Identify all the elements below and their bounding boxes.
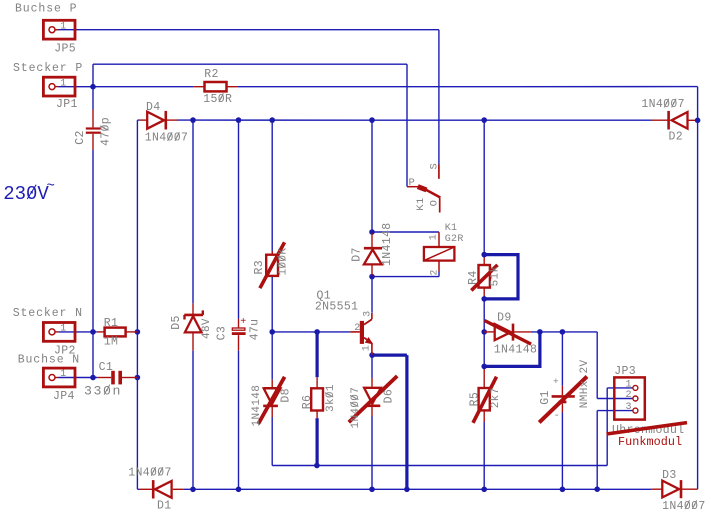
svg-text:Stecker P: Stecker P bbox=[13, 62, 83, 75]
svg-text:R5: R5 bbox=[469, 392, 482, 407]
svg-text:3: 3 bbox=[362, 311, 373, 317]
connector JP4 bbox=[43, 368, 75, 387]
svg-text:1: 1 bbox=[60, 21, 66, 32]
strikeout R4 bbox=[471, 265, 497, 291]
svg-text:R2: R2 bbox=[204, 68, 219, 81]
svg-text:1N4007: 1N4007 bbox=[145, 132, 189, 145]
svg-text:D1: D1 bbox=[157, 499, 172, 512]
node C1 right junction bbox=[135, 375, 141, 381]
battery G1 NiMH 2V crossed out bbox=[552, 395, 575, 398]
svg-text:1: 1 bbox=[428, 234, 439, 240]
wire relay coil top bbox=[372, 231, 439, 233]
wire JP3 pin1 bbox=[607, 387, 633, 389]
zener diode D8 1N4148 crossed out bbox=[264, 387, 281, 389]
label Funkmodul bbox=[618, 435, 682, 449]
strikeout D8 bbox=[258, 377, 284, 424]
svg-text:1N4007: 1N4007 bbox=[641, 98, 685, 111]
node R4 top junction bbox=[481, 252, 487, 258]
node D9 right junction bbox=[537, 329, 543, 335]
node D9 left junction bbox=[481, 329, 487, 335]
wire lower net to JP3 pin 1 bbox=[272, 465, 607, 467]
wire bottom rail bbox=[137, 488, 139, 490]
svg-text:1M: 1M bbox=[104, 336, 119, 349]
resistor R4 51k crossed out bbox=[479, 265, 490, 288]
wire D7/Q1 column from top rail bbox=[371, 120, 373, 233]
diode D3 1N4007 bbox=[662, 481, 679, 498]
node bottom rail junctions bbox=[190, 487, 196, 493]
svg-text:1: 1 bbox=[60, 369, 66, 380]
strikeout G1 bbox=[539, 377, 587, 423]
svg-text:Stecker N: Stecker N bbox=[13, 307, 83, 320]
svg-text:Buchse N: Buchse N bbox=[18, 354, 80, 367]
svg-text:2: 2 bbox=[354, 323, 360, 334]
strikeout R5 bbox=[473, 377, 497, 423]
wire D8 column to lower net bbox=[271, 332, 273, 380]
svg-text:2: 2 bbox=[429, 269, 440, 275]
node D7 top junction bbox=[369, 229, 375, 235]
node emitter jumper bottom bbox=[404, 487, 410, 493]
wire D6 to bottom rail bbox=[371, 416, 373, 489]
svg-text:Buchse P: Buchse P bbox=[15, 2, 77, 15]
capacitor C1 330n bbox=[111, 371, 115, 385]
wire D9 thick bypass bbox=[484, 332, 540, 367]
resistor R6 3k01 bbox=[311, 388, 323, 410]
diode D7 1N4148 bbox=[364, 247, 382, 250]
wire base rail R3 to Q1 bbox=[272, 331, 350, 333]
svg-text:3: 3 bbox=[626, 402, 632, 413]
svg-text:JP4: JP4 bbox=[53, 390, 75, 403]
wire JP1 riser to upper rail bbox=[92, 64, 94, 87]
node JP3 pin3 bottom junction bbox=[594, 486, 600, 492]
connector JP5 bbox=[43, 20, 75, 39]
svg-text:JP3: JP3 bbox=[614, 365, 636, 378]
wire JP5 to relay S column bbox=[58, 29, 439, 31]
svg-text:2N5551: 2N5551 bbox=[315, 300, 359, 313]
svg-text:230V: 230V bbox=[3, 183, 49, 205]
wire JP4 row to C1 bbox=[58, 377, 97, 379]
relay switch K1 P contact and arm bbox=[407, 186, 418, 188]
svg-text:150R: 150R bbox=[203, 93, 232, 106]
resistor R5 2k7 crossed out bbox=[479, 388, 490, 410]
node bypass left junction bbox=[481, 364, 487, 370]
wire R4 thick bypass bbox=[484, 255, 518, 299]
wire D7 collector link bbox=[371, 277, 373, 313]
svg-text:1N4148: 1N4148 bbox=[381, 222, 394, 266]
svg-text:C1: C1 bbox=[99, 361, 114, 374]
svg-text:G2R: G2R bbox=[445, 234, 464, 245]
svg-text:3k01: 3k01 bbox=[325, 384, 337, 412]
net label 230V~ bbox=[3, 183, 49, 205]
wire JP3 pin3 bbox=[597, 410, 633, 412]
diode D9 1N4148 crossed out bbox=[495, 324, 511, 340]
svg-text:-: - bbox=[554, 410, 561, 422]
node G1 bottom junction bbox=[560, 487, 566, 493]
svg-text:K1: K1 bbox=[445, 223, 458, 234]
svg-text:D3: D3 bbox=[662, 469, 677, 482]
wire D2 right stub to edge bbox=[688, 119, 698, 121]
label Uhrenmodul crossed out bbox=[612, 424, 685, 437]
wire Q1 emitter to D6 bbox=[371, 356, 373, 378]
wire N column JP2 to C1/JP4 bbox=[92, 332, 94, 378]
svg-text:D2: D2 bbox=[669, 131, 684, 144]
connector JP1 bbox=[43, 77, 75, 96]
wire D3 right stub to edge bbox=[682, 488, 698, 490]
svg-text:100K: 100K bbox=[278, 248, 290, 276]
svg-text:R6: R6 bbox=[301, 395, 314, 410]
svg-text:D8: D8 bbox=[279, 388, 292, 403]
svg-text:~: ~ bbox=[47, 179, 56, 195]
wire R4/R5 column bbox=[483, 120, 485, 255]
strikeout R3 bbox=[260, 242, 285, 288]
svg-text:1N4007: 1N4007 bbox=[662, 500, 706, 513]
node base-rail R6 junction bbox=[314, 329, 320, 335]
svg-text:S: S bbox=[428, 163, 440, 170]
svg-text:47u: 47u bbox=[249, 319, 262, 341]
svg-text:470p: 470p bbox=[99, 117, 112, 146]
svg-text:2k7: 2k7 bbox=[490, 387, 502, 408]
wire relay S riser bbox=[438, 30, 440, 165]
svg-text:R4: R4 bbox=[467, 270, 480, 285]
strikeout D9 bbox=[485, 321, 532, 345]
relay coil K1 G2R bbox=[424, 247, 455, 261]
wire relay P riser bbox=[406, 64, 408, 187]
relay switch K1 O contact bbox=[439, 198, 441, 213]
svg-text:D9: D9 bbox=[497, 312, 512, 325]
svg-text:1N4148: 1N4148 bbox=[251, 385, 263, 427]
node R6 lower junction bbox=[314, 463, 320, 469]
svg-text:D5: D5 bbox=[170, 315, 183, 330]
svg-text:C2: C2 bbox=[74, 130, 87, 145]
capacitor C3 47u electrolytic bbox=[240, 317, 246, 328]
svg-text:C3: C3 bbox=[216, 326, 229, 341]
wire R6 thick top bbox=[316, 332, 319, 377]
node G1 top junction bbox=[560, 329, 566, 335]
wire emitter thick jumper bbox=[372, 354, 407, 357]
node JP1 junction bbox=[90, 84, 96, 90]
resistor R2 bbox=[205, 82, 227, 91]
svg-text:D7: D7 bbox=[350, 247, 363, 262]
svg-text:D6: D6 bbox=[383, 389, 396, 404]
diode D2 1N4007 bbox=[672, 112, 688, 129]
svg-text:1: 1 bbox=[60, 78, 66, 89]
wire D5 column bbox=[192, 120, 194, 303]
svg-text:+: + bbox=[553, 376, 559, 387]
svg-text:1N4007: 1N4007 bbox=[350, 387, 362, 429]
wire top rail D4 row bbox=[137, 119, 139, 121]
svg-text:P: P bbox=[409, 177, 416, 189]
node C1 left junction bbox=[90, 375, 96, 381]
svg-text:2: 2 bbox=[626, 390, 632, 401]
transistor Q1 2N5551 bbox=[360, 321, 364, 344]
svg-text:1: 1 bbox=[626, 379, 632, 390]
node base-rail R3/D8 junction bbox=[269, 329, 275, 335]
connector JP3 bbox=[614, 377, 645, 419]
svg-text:JP5: JP5 bbox=[54, 43, 76, 56]
diode D4 1N4007 bbox=[147, 112, 164, 129]
wire right edge column bbox=[697, 87, 699, 490]
svg-text:JP1: JP1 bbox=[56, 98, 78, 111]
wire C3 column bbox=[238, 120, 240, 319]
resistor R1 1M bbox=[105, 328, 126, 337]
wire JP2 row to R1 bbox=[58, 331, 97, 333]
svg-text:R1: R1 bbox=[104, 317, 119, 330]
wire JP1 row through R2 to right edge bbox=[58, 86, 194, 88]
node emitter junction bbox=[369, 352, 375, 358]
node R1 right junction bbox=[135, 329, 141, 335]
svg-text:D4: D4 bbox=[146, 101, 161, 114]
wire R6 thick bottom bbox=[316, 418, 319, 465]
zener diode D5 48V bbox=[184, 314, 203, 317]
wire R3/D8 column top bbox=[271, 120, 273, 254]
node top rail junctions bbox=[190, 117, 196, 123]
wire JP3 pin2 riser bbox=[596, 332, 598, 399]
svg-text:O: O bbox=[428, 200, 440, 207]
svg-text:+: + bbox=[240, 317, 246, 328]
node JP2 junction bbox=[90, 329, 96, 335]
svg-text:51k: 51k bbox=[490, 265, 502, 286]
node D7 bottom junction bbox=[369, 274, 375, 280]
svg-text:1: 1 bbox=[362, 345, 373, 351]
wire relay coil bottom bbox=[372, 276, 439, 278]
svg-text:G1: G1 bbox=[539, 390, 552, 405]
svg-text:K1: K1 bbox=[415, 197, 427, 210]
relay switch K1 S contact bbox=[438, 165, 440, 179]
svg-text:Funkmodul: Funkmodul bbox=[618, 435, 682, 449]
connector JP2 bbox=[43, 323, 75, 342]
wire upper rail to relay P bbox=[93, 63, 407, 65]
svg-text:1: 1 bbox=[60, 324, 66, 335]
svg-text:330n: 330n bbox=[84, 383, 122, 398]
diode D1 1N4007 bbox=[155, 481, 172, 498]
svg-text:48V: 48V bbox=[201, 318, 213, 339]
svg-text:NMHx 2V: NMHx 2V bbox=[579, 359, 591, 408]
wire N column (C2) JP1 to JP2 bbox=[92, 87, 94, 110]
capacitor C2 bbox=[86, 127, 101, 129]
svg-text:R3: R3 bbox=[253, 260, 266, 275]
diode D6 1N4007 crossed out bbox=[364, 388, 381, 404]
strikeout D6 bbox=[349, 376, 397, 422]
svg-text:1N4148: 1N4148 bbox=[494, 343, 538, 356]
strikeout Uhrenmodul bbox=[607, 423, 688, 434]
node R4 bottom junction bbox=[481, 296, 487, 302]
wire G1 column bbox=[561, 332, 563, 386]
resistor R3 100K crossed out bbox=[266, 255, 278, 276]
wire AC column D4/R1/C1/D1 bbox=[136, 120, 138, 489]
wire D9 row right section bbox=[531, 331, 597, 333]
svg-text:1N4007: 1N4007 bbox=[128, 467, 172, 480]
